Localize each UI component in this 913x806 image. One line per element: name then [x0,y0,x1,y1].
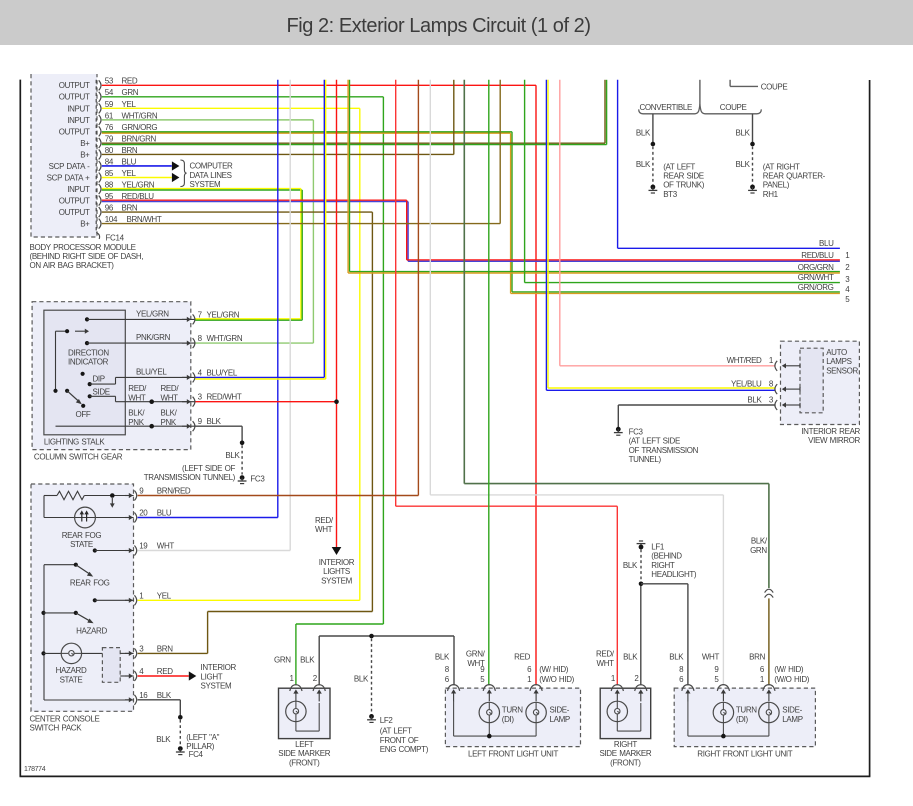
wire 96 BRN : module to console pin 3 [102,211,373,213]
svg-text:LF2: LF2 [380,716,394,725]
svg-text:(AT RIGHT: (AT RIGHT [763,162,800,171]
stalk pin 3 RED/WHT [182,401,188,403]
left front light unit box [445,688,580,747]
svg-text:LAMP: LAMP [782,715,802,724]
svg-text:84: 84 [105,157,114,166]
hazard state lamp [41,651,45,655]
svg-text:DIP: DIP [93,374,105,383]
svg-text:HAZARD: HAZARD [76,627,107,636]
wire BLK mirror pin 3 to ground FC3 [618,404,775,406]
svg-text:WHT: WHT [157,542,175,551]
svg-text:61: 61 [105,111,114,120]
svg-text:BLK: BLK [435,653,450,662]
svg-text:LIGHTS: LIGHTS [323,567,350,576]
svg-text:4: 4 [139,667,144,676]
svg-text:8: 8 [445,665,450,674]
console row 16 internal [44,699,134,701]
svg-text:BLK/: BLK/ [161,409,178,418]
svg-text:SCP DATA +: SCP DATA + [47,173,91,182]
svg-text:VIEW MIRROR: VIEW MIRROR [808,436,860,445]
svg-text:RED/WHT: RED/WHT [207,393,242,402]
svg-text:BODY PROCESSOR MODULE: BODY PROCESSOR MODULE [30,243,136,252]
left side marker lamp [286,701,306,721]
svg-text:(W/ HID): (W/ HID) [774,665,804,674]
wire 76 GRN/ORG : module to output 5 [102,131,512,133]
wire BLK right side marker pin 2 from LF1 bus [640,586,642,685]
svg-text:GRN/ORG: GRN/ORG [798,283,834,292]
svg-text:SIDE MARKER: SIDE MARKER [599,749,651,758]
svg-text:INPUT: INPUT [67,116,90,125]
svg-text:SIDE MARKER: SIDE MARKER [278,749,330,758]
svg-text:WHT: WHT [597,659,615,668]
svg-text:GRN/: GRN/ [466,650,486,659]
svg-text:(AT LEFT: (AT LEFT [663,162,695,171]
svg-text:BLK: BLK [354,675,369,684]
svg-text:SWITCH PACK: SWITCH PACK [30,724,83,733]
svg-text:COLUMN SWITCH GEAR: COLUMN SWITCH GEAR [34,452,123,461]
svg-text:HEADLIGHT): HEADLIGHT) [651,570,697,579]
stalk pin 7 YEL/GRN [182,318,188,320]
left side marker pin 1 GRN [290,685,302,691]
wire WHT/RED from top edge to interior rear view mirror pin 1 [559,80,561,366]
module pin connector dashed line [95,80,97,233]
wire 53 RED : module to left front light unit [102,84,536,86]
svg-text:2: 2 [634,674,639,683]
wire output 3 ORG/GRN from top edge [349,80,351,272]
svg-text:REAR SIDE: REAR SIDE [663,172,704,181]
svg-text:INTERIOR REAR: INTERIOR REAR [801,427,860,436]
svg-text:(W/ HID): (W/ HID) [539,665,569,674]
console pin 1 YEL [125,599,130,601]
svg-text:ENG COMPT): ENG COMPT) [380,745,429,754]
svg-text:PNK: PNK [128,418,144,427]
svg-text:20: 20 [139,509,148,518]
wire BRN/RED from top edge to console pin 9 [417,80,419,496]
svg-text:WHT/GRN: WHT/GRN [122,111,158,120]
svg-text:19: 19 [139,542,148,551]
wire BLU/YEL from top to stalk pin 4 [323,80,325,378]
svg-text:COUPE: COUPE [720,103,747,112]
svg-text:TUNNEL): TUNNEL) [629,455,662,464]
svg-text:1: 1 [611,674,616,683]
svg-text:TURN: TURN [502,705,523,714]
right unit turn lamp [722,701,724,703]
title bar [0,0,913,45]
svg-text:BLK/: BLK/ [128,409,145,418]
console pin 3 BRN [125,652,130,654]
svg-text:RED: RED [122,77,138,86]
console pin 20 BLU [125,517,130,519]
console pin 16 BLK [125,699,130,701]
svg-text:4: 4 [198,368,203,377]
svg-text:LAMPS: LAMPS [826,357,851,366]
svg-text:INTERIOR: INTERIOR [201,663,237,672]
left unit turn lamp [488,701,490,703]
svg-text:RIGHT: RIGHT [614,740,638,749]
svg-text:FC3: FC3 [629,427,644,436]
wire 85 YEL : to computer data lines system [102,177,172,179]
svg-text:LF1: LF1 [651,543,665,552]
svg-text:AUTO: AUTO [826,348,847,357]
wire RED/WHT from top edge to right side marker pin 1 [395,80,397,506]
svg-text:WHT: WHT [702,653,720,662]
stalk pin 8 WHT/GRN [182,342,188,344]
wire output 4 GRN/WHT from top edge [524,80,526,283]
svg-text:BLK: BLK [736,129,751,138]
console pin 4 RED [125,675,130,677]
mirror pin 3 BLK [775,400,777,410]
svg-text:REAR QUARTER-: REAR QUARTER- [763,172,826,181]
rear fog switch [93,548,97,552]
svg-text:OUTPUT: OUTPUT [59,208,90,217]
svg-text:YEL: YEL [122,169,137,178]
inline connector on BLK/GRN-BRN wire [765,589,774,592]
svg-text:SYSTEM: SYSTEM [201,682,232,691]
wire 104 BRN/WHT : module up to top edge [102,223,500,225]
svg-text:BRN: BRN [122,146,138,155]
svg-text:SIDE-: SIDE- [550,705,570,714]
svg-text:5: 5 [845,295,850,304]
svg-text:GRN: GRN [750,546,767,555]
svg-text:BRN/WHT: BRN/WHT [127,215,162,224]
svg-text:GRN: GRN [122,88,139,97]
svg-text:(AT LEFT: (AT LEFT [380,727,412,736]
svg-text:BT3: BT3 [663,190,678,199]
svg-text:OUTPUT: OUTPUT [59,127,90,136]
svg-text:BLK: BLK [623,561,638,570]
wire BRN to right front light unit pin 6/1 [768,598,770,685]
svg-text:8: 8 [769,380,774,389]
lighting switch (dip/side/off) [53,389,57,393]
svg-text:1: 1 [139,592,144,601]
wire WHT from top edge to right front light unit pin 9/5 [429,80,431,495]
svg-text:3: 3 [139,645,144,654]
svg-text:INDICATOR: INDICATOR [68,358,109,367]
svg-text:LAMP: LAMP [550,715,570,724]
svg-text:BLU: BLU [157,509,172,518]
svg-text:SENSOR: SENSOR [826,366,858,375]
svg-text:ON AIR BAG BRACKET): ON AIR BAG BRACKET) [30,261,115,270]
svg-text:104: 104 [105,215,118,224]
svg-text:178774: 178774 [24,766,46,773]
svg-text:BLU/YEL: BLU/YEL [136,367,167,376]
svg-text:2: 2 [845,263,850,272]
svg-text:B+: B+ [80,220,90,229]
svg-text:BRN: BRN [157,645,173,654]
wire BLK/GRN from top edge to inline connector above right front light unit [463,80,465,484]
svg-text:SYSTEM: SYSTEM [321,576,352,585]
lighting stalk inner box [44,310,125,435]
svg-text:1: 1 [845,251,850,260]
right unit pin 9/5 WHT [717,685,729,691]
right side marker pin 2 BLK [635,685,647,691]
svg-text:SYSTEM: SYSTEM [190,180,221,189]
svg-text:8: 8 [679,665,684,674]
svg-text:FC14: FC14 [106,234,125,243]
svg-text:(FRONT): (FRONT) [610,758,641,767]
hazard switch [41,611,45,615]
svg-text:HAZARD: HAZARD [56,666,87,675]
right front light unit box [674,688,815,747]
svg-text:INPUT: INPUT [67,104,90,113]
coupe bracket wire [729,80,731,87]
wire 84 BLU : to computer data lines system [102,165,172,167]
mirror pin 1 WHT/RED [775,361,777,371]
svg-text:LEFT FRONT LIGHT UNIT: LEFT FRONT LIGHT UNIT [468,749,558,758]
ground LF1 (inverted) [637,541,646,549]
center console switch pack box [31,484,134,711]
svg-text:OF TRUNK): OF TRUNK) [663,181,705,190]
svg-text:TURN: TURN [736,705,757,714]
svg-text:WHT: WHT [161,393,179,402]
svg-text:(BEHIND RIGHT SIDE OF DASH,: (BEHIND RIGHT SIDE OF DASH, [30,252,144,261]
svg-text:BLK: BLK [747,395,762,404]
svg-text:4: 4 [845,285,850,294]
svg-text:FC3: FC3 [250,474,265,483]
wire from top edge to convertible/coupe brace [699,80,701,105]
wire GRN/WHT from top edge to left front light unit pin 9/5 [488,80,490,685]
svg-text:1: 1 [527,675,532,684]
svg-text:SIDE-: SIDE- [782,705,802,714]
svg-text:LIGHT: LIGHT [201,672,223,681]
svg-text:BLK: BLK [300,656,315,665]
svg-text:BLK: BLK [636,160,651,169]
wire 79 BRN/GRN : module up to top edge [102,142,605,144]
svg-text:LEFT: LEFT [295,740,314,749]
left unit pin 9/5 GRN/WHT [483,685,495,691]
ground FC3 (stalk) [238,475,247,483]
svg-text:RED/BLU: RED/BLU [801,251,834,260]
svg-text:RH1: RH1 [763,190,779,199]
wire BLK console pin 16 to ground FC4 [138,699,181,701]
svg-text:(DI): (DI) [502,715,515,724]
left unit side-lamp [526,702,546,722]
svg-text:STATE: STATE [60,675,83,684]
svg-text:RED: RED [157,667,173,676]
convertible/coupe brace [639,104,762,114]
svg-text:WHT: WHT [315,525,333,534]
svg-text:YEL/GRN: YEL/GRN [207,310,240,319]
wire 54 GRN : module to left side marker pin 1 [102,96,384,98]
svg-text:76: 76 [105,123,114,132]
wire red/wht jog inside stalk [90,395,116,397]
wire BLK left side marker pin 2 to left front light unit pin 8/6 [318,636,320,685]
svg-text:COMPUTER: COMPUTER [190,162,234,171]
wire blk/pnk inside stalk [56,425,196,427]
svg-text:YEL: YEL [157,592,172,601]
svg-text:1: 1 [289,674,294,683]
svg-text:RED/: RED/ [161,384,180,393]
svg-text:RED/: RED/ [596,650,615,659]
left side marker (front) box [279,688,331,738]
svg-text:CENTER CONSOLE: CENTER CONSOLE [30,714,100,723]
svg-text:BLK: BLK [156,735,171,744]
svg-text:8: 8 [198,334,203,343]
console internal connector sub-box [102,648,120,683]
svg-text:BRN: BRN [122,203,138,212]
console pin 9 BRN/RED [125,495,130,497]
svg-text:59: 59 [105,100,114,109]
svg-text:DATA LINES: DATA LINES [190,171,232,180]
wire RED/WHT from top through stalk pin 3 junction down to interior lights system [336,80,338,548]
svg-text:TRANSMISSION TUNNEL): TRANSMISSION TUNNEL) [144,473,236,482]
wire BLK LF1 to right front light unit pin 8/6 [641,583,688,585]
svg-text:79: 79 [105,134,114,143]
right side marker pin 1 RED/WHT [611,685,623,691]
svg-text:PNK: PNK [161,418,177,427]
svg-text:ORG/GRN: ORG/GRN [798,263,834,272]
mirror pin 8 YEL/BLU [775,384,777,394]
svg-text:6: 6 [445,675,450,684]
body processor module FC14 box [31,74,97,237]
wire BLK coupe to ground RH1 [752,114,754,144]
svg-text:YEL/GRN: YEL/GRN [136,309,169,318]
wire BLK convertible to ground BT3 [652,114,654,144]
svg-text:3: 3 [769,395,774,404]
svg-text:6: 6 [527,665,532,674]
wire 88 YEL/GRN : module to lighting stalk pin 7 [102,188,301,190]
direction indicator switch [55,331,57,391]
svg-text:LIGHTING STALK: LIGHTING STALK [44,438,105,447]
svg-text:BLK/: BLK/ [751,537,768,546]
svg-text:OUTPUT: OUTPUT [59,81,90,90]
svg-text:BLK: BLK [736,160,751,169]
svg-text:REAR FOG: REAR FOG [70,579,110,588]
svg-text:FRONT OF: FRONT OF [380,736,419,745]
svg-text:5: 5 [714,675,719,684]
svg-text:9: 9 [139,487,144,496]
svg-text:OFF: OFF [76,410,91,419]
svg-text:80: 80 [105,146,114,155]
svg-text:COUPE: COUPE [761,83,788,92]
stalk pin 9 BLK [182,425,188,427]
svg-text:WHT: WHT [128,393,146,402]
svg-text:1: 1 [769,356,774,365]
ground RH1 [748,185,757,193]
left unit pin 6/1 RED [530,685,542,691]
right unit side-lamp [759,702,779,722]
LED indicator (rear fog state) [44,517,134,519]
svg-text:REAR FOG: REAR FOG [62,531,102,540]
svg-text:(LEFT SIDE OF: (LEFT SIDE OF [182,464,235,473]
svg-text:3: 3 [198,393,203,402]
ground LF2 [367,714,376,722]
svg-text:(FRONT): (FRONT) [289,758,320,767]
svg-text:RED: RED [514,653,530,662]
interior rear view mirror box [781,341,860,424]
wire BLK stalk pin 9 to ground FC3 [195,425,242,427]
wire YEL/BLU from top edge to interior rear view mirror pin 8 [545,80,547,391]
right side marker (front) box [600,688,651,738]
left unit internal bus [453,701,455,736]
wire 95 RED/BLU : module to output 2 [102,199,407,201]
svg-text:(BEHIND: (BEHIND [651,552,682,561]
svg-text:BRN: BRN [749,653,765,662]
svg-text:BLU: BLU [819,239,834,248]
svg-text:7: 7 [198,310,203,319]
computer data lines system brace and caption [180,160,186,187]
svg-text:(LEFT "A": (LEFT "A" [186,733,219,742]
svg-text:9: 9 [714,665,719,674]
right unit pin 6/1 BRN [763,685,775,691]
wire blu/yel jog inside stalk [90,383,116,385]
svg-text:OUTPUT: OUTPUT [59,93,90,102]
ground FC4 [176,746,185,754]
svg-text:DIRECTION: DIRECTION [68,348,109,357]
svg-text:2: 2 [313,674,318,683]
auto lamps sensor box [800,348,823,413]
svg-text:6: 6 [760,665,765,674]
console pin 19 WHT [125,550,130,552]
svg-text:(W/O HID): (W/O HID) [774,675,809,684]
svg-text:96: 96 [105,203,114,212]
svg-text:53: 53 [105,77,114,86]
resistor (rear fog state) [44,495,57,497]
svg-text:SCP DATA -: SCP DATA - [49,162,91,171]
svg-text:85: 85 [105,169,114,178]
svg-text:PANEL): PANEL) [763,181,790,190]
svg-text:9: 9 [480,665,485,674]
wire BLU vertical to console pin 20 [277,80,279,518]
svg-text:3: 3 [845,275,850,284]
stalk pin 4 BLU/YEL [182,376,188,378]
svg-text:BLK: BLK [225,451,240,460]
right unit internal bus [687,701,689,736]
svg-text:(DI): (DI) [736,715,749,724]
svg-text:5: 5 [480,675,485,684]
svg-text:OUTPUT: OUTPUT [59,196,90,205]
wire 59 YEL : module to console pin 1 [102,107,360,109]
svg-text:16: 16 [139,691,148,700]
column switch gear box [32,302,191,450]
wire 61 WHT/GRN : module to lighting stalk pin 8 [102,119,314,121]
svg-text:INPUT: INPUT [67,185,90,194]
wire 80 BRN : module up to top edge [102,153,454,155]
right unit pin 8/6 BLK [682,685,694,691]
svg-text:BLK: BLK [636,129,651,138]
svg-text:BLK: BLK [157,691,172,700]
junction node on RED/WHT [334,399,339,404]
svg-text:B+: B+ [80,139,90,148]
wire WHT vertical to console pin 19 [289,80,291,551]
svg-text:YEL/BLU: YEL/BLU [731,380,762,389]
svg-text:WHT/RED: WHT/RED [727,356,762,365]
svg-text:(W/O HID): (W/O HID) [539,675,574,684]
ground FC3 (transmission tunnel) [614,427,623,435]
left side marker pin 2 BLK [313,685,325,691]
svg-text:RIGHT FRONT LIGHT UNIT: RIGHT FRONT LIGHT UNIT [697,749,792,758]
svg-text:SIDE: SIDE [93,388,110,397]
svg-text:6: 6 [679,675,684,684]
svg-text:PNK/GRN: PNK/GRN [136,333,171,342]
svg-text:RIGHT: RIGHT [651,561,675,570]
svg-text:BRN/GRN: BRN/GRN [122,134,157,143]
svg-text:RED/: RED/ [315,516,334,525]
left unit pin 8/6 BLK [448,685,460,691]
svg-text:WHT/GRN: WHT/GRN [207,334,243,343]
svg-text:9: 9 [198,417,203,426]
svg-text:CONVERTIBLE: CONVERTIBLE [640,103,692,112]
svg-text:BLU: BLU [122,157,137,166]
svg-text:FC4: FC4 [189,750,204,759]
svg-text:(AT LEFT SIDE: (AT LEFT SIDE [629,437,680,446]
right side marker lamp [607,701,627,721]
svg-text:GRN/ORG: GRN/ORG [122,123,158,132]
svg-text:BRN/RED: BRN/RED [157,487,191,496]
svg-text:BLK: BLK [669,653,684,662]
svg-text:1: 1 [760,675,765,684]
svg-text:RED/: RED/ [128,384,147,393]
